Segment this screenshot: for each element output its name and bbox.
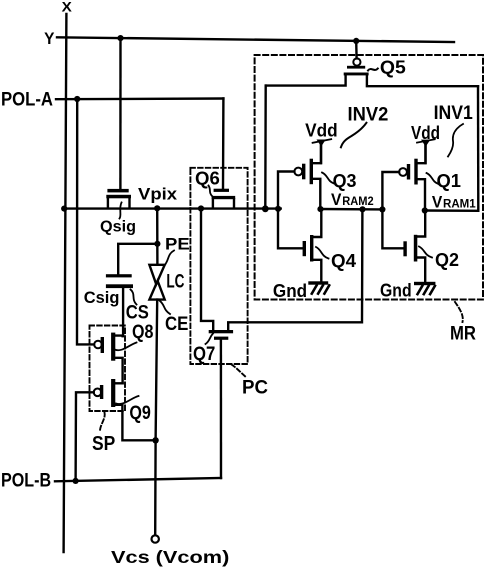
- transistor Q4 pointer: [316, 247, 329, 259]
- transistor Qsig: [106, 189, 131, 208]
- wire INV2 input column: [278, 172, 303, 249]
- wire POL-B row: [55, 478, 221, 481]
- transistor Q3 pointer: [322, 173, 334, 184]
- box SP pointer dashed: [100, 413, 105, 433]
- svg-text:SP: SP: [92, 433, 115, 455]
- node junction INV2 input: [275, 206, 281, 212]
- svg-text:Q5: Q5: [380, 58, 406, 78]
- capacitor Csig branch wire: [118, 244, 157, 274]
- transistor Q7: [201, 209, 362, 340]
- transistor Q9: [94, 379, 156, 440]
- wire Qsig gate column: [119, 38, 121, 189]
- svg-text:X: X: [62, 0, 73, 14]
- svg-text:POL-B: POL-B: [1, 469, 51, 491]
- svg-text:PE: PE: [165, 235, 190, 254]
- svg-text:LC: LC: [166, 271, 184, 293]
- node junction VRAM2 feedback: [359, 206, 365, 212]
- wire VRAM2 row: [320, 208, 382, 211]
- node CS pointer: [131, 290, 137, 305]
- wire Q9 gate from POL-B: [76, 392, 94, 480]
- svg-text:Gnd: Gnd: [273, 281, 307, 301]
- transistor Q2 pointer: [419, 247, 432, 258]
- svg-text:Vdd: Vdd: [305, 119, 338, 140]
- node junction to Q7 source: [198, 205, 204, 211]
- node junction Y to Qsig gate: [117, 35, 123, 41]
- svg-text:Csig: Csig: [84, 288, 120, 307]
- node junction Q1 drain: [422, 207, 428, 213]
- box MR dashed: [255, 55, 483, 300]
- wire POL-A row: [56, 97, 223, 100]
- wire LC to Vcs: [155, 300, 157, 535]
- transistor Q8 pointer: [115, 343, 137, 351]
- node junction Q9 drain to Vcs line: [152, 437, 158, 443]
- node VRAM1 label: [432, 193, 476, 212]
- transistor Q1: [399, 144, 425, 211]
- transistor Q6 pointer: [209, 186, 213, 197]
- node junction POL-A to Q8: [74, 96, 80, 102]
- wire main pixel row: [64, 207, 281, 209]
- wire INV1 input column: [382, 172, 403, 248]
- transistor Q8: [94, 333, 122, 384]
- node junction Y to Q5: [353, 38, 359, 44]
- svg-text:MR: MR: [450, 324, 476, 345]
- svg-text:V: V: [432, 193, 443, 212]
- svg-text:POL-A: POL-A: [1, 89, 53, 111]
- box PC dashed: [190, 168, 247, 364]
- wire VRAM1 row: [425, 209, 479, 212]
- transistor Q5 tilde: [368, 69, 378, 71]
- wire POL-A to Q8 gate: [77, 99, 94, 344]
- node Vpix junction: [154, 205, 160, 211]
- node PE pointer: [164, 251, 174, 267]
- svg-text:RAM2: RAM2: [342, 194, 374, 208]
- ground symbol INV2: [308, 281, 329, 293]
- svg-text:CS: CS: [126, 302, 149, 323]
- wire X column vertical: [64, 14, 67, 552]
- box MR pointer dashed: [455, 302, 463, 322]
- node CE pointer: [160, 301, 171, 315]
- wire Q6 gate column from POL-A: [222, 99, 225, 189]
- wire Q7 gate column: [220, 340, 223, 479]
- svg-text:Qsig: Qsig: [100, 219, 136, 236]
- svg-text:Q1: Q1: [437, 171, 462, 191]
- svg-text:RAM1: RAM1: [443, 197, 476, 211]
- liquid crystal LC: [149, 265, 164, 300]
- transistor Q7 pointer: [206, 334, 214, 345]
- inverter INV1 pointer: [448, 124, 463, 157]
- power Vdd terminal INV1: [417, 139, 435, 163]
- node junction Q3 drain: [317, 206, 323, 212]
- node junction PE branch: [154, 241, 160, 247]
- inverter INV2 pointer: [341, 123, 367, 148]
- wire Q5 right column to VRAM1: [477, 86, 480, 211]
- svg-text:V: V: [331, 190, 342, 209]
- transistor Q2: [403, 211, 425, 282]
- node junction INV1 input: [379, 206, 385, 212]
- wire Q5 left feedback column: [264, 86, 267, 209]
- node junction POL-B to Q9: [73, 478, 79, 484]
- terminal Vcs circle: [152, 535, 159, 542]
- transistor Q4: [303, 209, 322, 281]
- power Vdd terminal INV2: [313, 139, 332, 163]
- wire pixel electrode vertical: [156, 208, 159, 264]
- svg-text:Q4: Q4: [331, 250, 357, 271]
- transistor Q3: [294, 144, 321, 209]
- svg-text:Q2: Q2: [435, 249, 459, 270]
- box PC pointer dashed: [232, 365, 247, 378]
- box SP dashed: [90, 326, 126, 412]
- transistor Q5: [266, 41, 478, 86]
- wire Y row horizontal: [57, 37, 454, 42]
- svg-text:CE: CE: [165, 314, 188, 335]
- svg-text:Q3: Q3: [333, 171, 357, 191]
- svg-text:INV1: INV1: [434, 102, 473, 124]
- node VRAM2 label: [331, 190, 374, 209]
- svg-text:Y: Y: [44, 29, 55, 48]
- svg-text:Q7: Q7: [193, 344, 215, 365]
- transistor Qsig pointer: [120, 203, 122, 219]
- transistor Q6: [212, 189, 236, 208]
- wire CS node down to Q8: [122, 288, 124, 336]
- capacitor Csig: [106, 274, 133, 288]
- svg-text:Vpix: Vpix: [138, 186, 178, 204]
- node junction X to Qsig source: [61, 206, 67, 212]
- svg-text:Vcs (Vcom): Vcs (Vcom): [111, 547, 229, 567]
- ground symbol INV1: [414, 282, 435, 294]
- svg-text:PC: PC: [242, 377, 268, 399]
- transistor Q9 pointer: [116, 396, 139, 404]
- transistor Q1 pointer: [427, 173, 439, 184]
- svg-text:Q8: Q8: [132, 322, 153, 343]
- svg-text:Q9: Q9: [129, 403, 151, 424]
- svg-text:INV2: INV2: [348, 104, 389, 126]
- node junction Q5 feedback: [262, 205, 269, 212]
- svg-text:Gnd: Gnd: [380, 281, 412, 301]
